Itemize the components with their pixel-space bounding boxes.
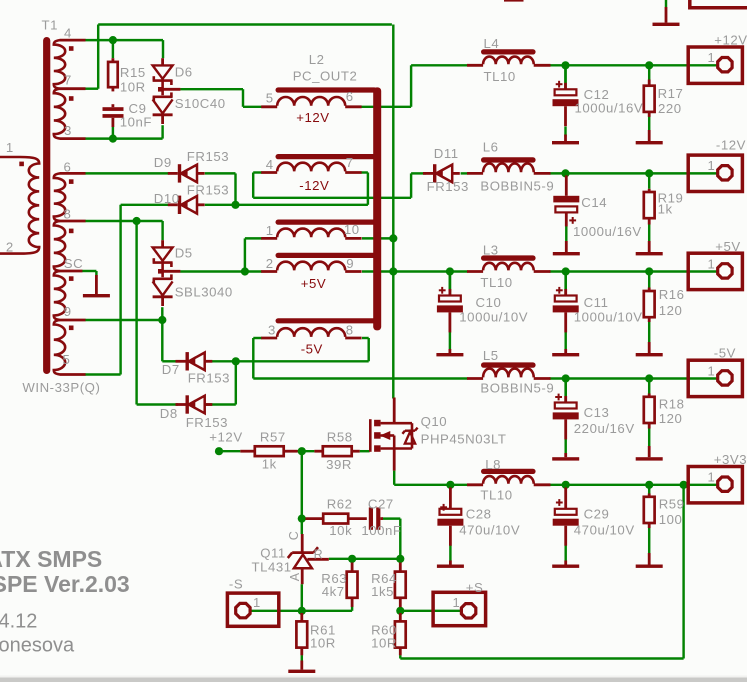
node D9/D10 junction <box>231 201 239 209</box>
wire net L2 pin6 to +12V rail <box>362 106 412 108</box>
svg-text:8: 8 <box>64 207 72 222</box>
inductor L2 core bars <box>276 87 378 92</box>
ground R19 <box>648 241 651 252</box>
capacitor C28 <box>449 487 452 508</box>
transistor Q11 TL431 <box>301 534 304 553</box>
wire net shunt leads rail5 <box>564 485 566 505</box>
transistor Q10 PHP45N03LT <box>369 419 372 452</box>
node loop junction <box>680 481 688 489</box>
svg-text:L3: L3 <box>483 243 499 258</box>
resistor R58 <box>314 450 323 453</box>
svg-text:2: 2 <box>6 240 14 255</box>
node pin3/C9 junction <box>109 135 117 143</box>
inductor L4 TL10 <box>481 49 536 54</box>
wire net +5V rail <box>393 270 467 272</box>
node R18 junction <box>645 374 653 382</box>
svg-text:D9: D9 <box>154 155 172 170</box>
resistor R57 <box>240 450 255 453</box>
wire net R60 bottom loop to +3V3 rail <box>399 655 401 658</box>
svg-text:120: 120 <box>659 303 683 318</box>
wire net +3V3 rail <box>393 471 395 485</box>
connector X-5V <box>688 360 742 396</box>
node D5 anode junction <box>158 316 166 324</box>
inductor L5 BOBBIN5-9 <box>481 362 536 367</box>
wire net C27 right to R64 column <box>382 517 400 519</box>
svg-text:L6: L6 <box>483 140 499 155</box>
node C14 junction <box>561 169 569 177</box>
resistor R60 <box>399 613 402 621</box>
svg-text:5: 5 <box>266 91 274 106</box>
svg-text:D6: D6 <box>175 64 193 79</box>
node bus/pin10 junction <box>362 237 393 239</box>
wire net TL431 cathode lead <box>301 519 303 534</box>
bottom scrollbar strip <box>0 676 747 678</box>
svg-text:C29: C29 <box>584 507 610 522</box>
connector +S <box>433 592 486 625</box>
node anode/R61 junction <box>298 607 306 615</box>
svg-text:PC_OUT2: PC_OUT2 <box>293 69 358 84</box>
svg-text:7: 7 <box>346 155 354 170</box>
svg-text:BOBBIN5-9: BOBBIN5-9 <box>480 179 554 194</box>
svg-text:1000u/10V: 1000u/10V <box>574 310 643 325</box>
wire net rectified -5V to L2 pin8 <box>236 360 369 362</box>
ground R61 <box>300 661 303 670</box>
wire stub top edge <box>504 0 524 2</box>
svg-text:TL431: TL431 <box>252 560 292 575</box>
resistor R16 <box>648 288 651 292</box>
wire net +12V rail dots <box>561 61 569 69</box>
node R16 junction <box>645 267 653 275</box>
wire net rectified -12V to L2 pin7 <box>236 204 368 206</box>
svg-text:-5V: -5V <box>714 346 736 361</box>
svg-text:R17: R17 <box>658 86 684 101</box>
ground C10 <box>448 349 451 353</box>
transformer T1 polarity dots <box>69 46 74 51</box>
svg-text:39R: 39R <box>326 457 352 472</box>
svg-text:1: 1 <box>266 223 274 238</box>
wire net L2 pin3 loop to -5V rail <box>253 337 262 339</box>
capacitor C11 <box>564 272 567 296</box>
svg-text:1: 1 <box>708 50 716 65</box>
svg-text:1k: 1k <box>658 202 673 217</box>
wire net SC to ground <box>82 270 97 272</box>
svg-text:-S: -S <box>229 576 243 591</box>
svg-text:1k5: 1k5 <box>371 584 394 599</box>
capacitor C27 <box>369 507 373 529</box>
svg-text:C14: C14 <box>581 195 607 210</box>
diode D10 FR153 <box>178 196 181 214</box>
svg-text:R62: R62 <box>327 497 353 512</box>
svg-text:L5: L5 <box>483 348 499 363</box>
wire net -12V rail <box>550 172 718 174</box>
ground C13 <box>564 453 567 457</box>
svg-text:9: 9 <box>64 304 72 319</box>
connector X+3V3 <box>688 467 742 503</box>
wire net L2 pin9 to +5V rail <box>362 270 393 272</box>
wire vertical bus x393 to Q10 drain <box>392 25 394 399</box>
svg-text:-12V: -12V <box>299 178 329 193</box>
resistor R17 <box>648 80 651 86</box>
svg-text:R15: R15 <box>120 65 146 80</box>
transformer T1 primary polarity dot <box>19 162 24 167</box>
svg-text:+12V: +12V <box>714 33 747 48</box>
svg-text:R: R <box>314 548 324 562</box>
svg-text:1k: 1k <box>262 457 277 472</box>
wire net -S row <box>251 610 353 612</box>
wire net node down to R62 row <box>301 451 303 518</box>
node pin8 junction <box>133 217 141 225</box>
svg-text:S10C40: S10C40 <box>175 96 226 111</box>
svg-text:L2: L2 <box>309 52 325 67</box>
diode D9 FR153 <box>178 164 181 182</box>
svg-text:3: 3 <box>268 322 276 337</box>
connector X+5V <box>688 253 742 289</box>
node C29 junction <box>562 481 570 489</box>
svg-text:1: 1 <box>708 470 716 485</box>
inductor L2 windings <box>277 97 345 106</box>
wire net shunt leads rail2 <box>648 173 650 188</box>
wire net pin7 to top bus <box>85 87 98 89</box>
transformer T1 core <box>43 37 50 374</box>
svg-text:L8: L8 <box>485 457 501 472</box>
resistor R59 <box>648 494 651 497</box>
node C28 junction <box>446 481 454 489</box>
svg-text:1000u/10V: 1000u/10V <box>459 310 528 325</box>
svg-text:C10: C10 <box>476 295 502 310</box>
capacitor C13 <box>564 379 567 403</box>
svg-text:ATX SMPS: ATX SMPS <box>0 546 102 572</box>
node C10 junction <box>446 267 454 275</box>
capacitor C14 <box>565 175 568 195</box>
svg-text:1000u/16V: 1000u/16V <box>575 100 644 115</box>
svg-text:7: 7 <box>64 72 72 87</box>
node L2 pin1/pin2 junction <box>241 267 249 275</box>
svg-text:FR153: FR153 <box>188 371 230 386</box>
svg-text:+5V: +5V <box>715 239 740 254</box>
inductor L8 TL10 <box>481 469 536 474</box>
diode D5 dual schottky SBL3040 <box>161 240 164 247</box>
svg-text:+5V: +5V <box>301 276 326 291</box>
wire net L2 pin4 loop to D11 <box>253 171 262 173</box>
svg-text:FR153: FR153 <box>186 415 228 430</box>
svg-text:R57: R57 <box>260 430 286 445</box>
node R62/TL431 junction <box>298 515 306 523</box>
svg-text:4.12: 4.12 <box>0 610 37 632</box>
node C11 junction <box>562 267 570 275</box>
svg-text:A: A <box>288 572 302 581</box>
svg-text:220u/16V: 220u/16V <box>574 421 635 436</box>
node R19 junction <box>645 169 653 177</box>
svg-text:-12V: -12V <box>716 137 746 152</box>
wire net TL431 anode down <box>301 584 303 611</box>
svg-text:TL10: TL10 <box>480 488 512 503</box>
connector X+12V <box>688 47 742 83</box>
svg-text:4: 4 <box>64 25 72 40</box>
svg-text:10R: 10R <box>310 635 336 650</box>
svg-text:6: 6 <box>64 159 72 174</box>
svg-text:3: 3 <box>64 123 72 138</box>
node R64/R60 junction <box>396 607 404 615</box>
ground C14 <box>565 241 568 252</box>
wire net R57-R58 node <box>298 450 315 452</box>
svg-text:9: 9 <box>346 256 354 271</box>
svg-text:100nF: 100nF <box>361 523 401 538</box>
transformer T1 primary winding <box>0 157 39 254</box>
svg-text:2: 2 <box>266 256 274 271</box>
resistor R18 <box>648 394 651 397</box>
svg-text:10R: 10R <box>371 635 397 650</box>
node R57/R58 junction <box>298 447 306 455</box>
diode D8 FR153 <box>186 395 189 413</box>
wire net D10 row <box>121 204 169 206</box>
ground R17 <box>648 130 651 141</box>
wire net D6 tap to L2 pin5 <box>180 88 243 90</box>
capacitor C9 <box>103 107 124 111</box>
wire net R58 to Q10 gate <box>360 450 370 452</box>
svg-text:SBL3040: SBL3040 <box>175 285 233 300</box>
diode D7 FR153 <box>186 352 189 370</box>
wire net +12V feed R57 <box>215 447 223 455</box>
svg-text:D8: D8 <box>160 406 178 421</box>
wire net pin3 row to D6 bottom and C9 <box>85 137 163 139</box>
wire net pin8 row to D5 top <box>85 220 163 222</box>
wire net D5 tap to +5V node <box>180 270 245 272</box>
resistor R19 <box>648 189 651 192</box>
svg-text:8: 8 <box>346 322 354 337</box>
svg-text:D5: D5 <box>175 246 193 261</box>
wire net +S row <box>399 559 401 563</box>
connector X-12V <box>688 155 742 191</box>
resistor R64 <box>399 563 402 572</box>
svg-text:220: 220 <box>658 101 682 116</box>
svg-text:R59: R59 <box>659 497 685 512</box>
svg-text:TL10: TL10 <box>480 275 512 290</box>
svg-text:SPE Ver.2.03: SPE Ver.2.03 <box>0 571 130 597</box>
svg-text:10k: 10k <box>329 523 352 538</box>
node R63 top junction <box>348 555 356 563</box>
wire net tap line x120 to T1 pin5 <box>119 205 121 375</box>
svg-text:100: 100 <box>659 512 683 527</box>
svg-text:Q10: Q10 <box>421 414 448 429</box>
ground C29 <box>564 561 567 565</box>
svg-text:1000u/16V: 1000u/16V <box>573 224 642 239</box>
resistor R63 <box>351 563 354 572</box>
wire net R63 leads <box>351 559 353 563</box>
svg-text:C: C <box>287 531 301 541</box>
svg-text:Q11: Q11 <box>260 545 286 560</box>
svg-text:470u/10V: 470u/10V <box>459 523 520 538</box>
ground R18 <box>648 446 651 457</box>
capacitor C10 <box>449 272 452 296</box>
svg-text:C28: C28 <box>466 507 492 522</box>
ground SC <box>95 275 98 294</box>
wire net shunt leads rail4 <box>564 379 566 400</box>
svg-text:4k7: 4k7 <box>322 584 345 599</box>
svg-text:5: 5 <box>63 352 71 367</box>
svg-text:1: 1 <box>253 595 261 610</box>
wire net R64 top lead <box>399 559 401 563</box>
svg-text:FR153: FR153 <box>187 149 229 164</box>
wire net shunt leads rail1 <box>564 65 566 83</box>
node bus/+5V rail junction <box>389 267 397 275</box>
wire net top-right ground stub <box>665 0 667 7</box>
svg-text:T1: T1 <box>42 18 59 33</box>
svg-text:SC: SC <box>64 256 83 271</box>
svg-text:10nF: 10nF <box>120 115 152 130</box>
inductor L3 TL10 <box>481 255 536 260</box>
ground C12 <box>564 135 567 142</box>
wire net SEC1 pin4 to R15/D6 top <box>85 39 163 41</box>
ground C28 <box>449 561 452 565</box>
svg-text:6: 6 <box>346 89 354 104</box>
capacitor C12 <box>564 65 567 89</box>
svg-text:C11: C11 <box>584 295 609 310</box>
ground top-right <box>665 7 668 23</box>
ground R16 <box>648 342 651 353</box>
wire net D11 out to L6 <box>461 172 468 174</box>
node R59 junction <box>645 481 653 489</box>
diode D6 dual schottky S10C40 <box>161 58 164 65</box>
svg-text:onesova: onesova <box>0 635 75 657</box>
svg-text:D11: D11 <box>434 146 459 161</box>
svg-text:FR153: FR153 <box>187 183 229 198</box>
node pin4 junction <box>109 36 117 44</box>
wire net D5 node to D7 <box>161 320 163 361</box>
wire net pin9 row to D5 bottom node <box>85 319 162 321</box>
svg-text:10R: 10R <box>120 80 146 95</box>
svg-text:+12V: +12V <box>209 430 242 445</box>
node D7/D8 junction <box>232 357 240 365</box>
svg-text:BOBBIN5-9: BOBBIN5-9 <box>480 381 554 396</box>
node C27/R64/ref junction <box>396 555 404 563</box>
ground R59 <box>648 553 651 565</box>
svg-text:FR153: FR153 <box>427 179 469 194</box>
svg-text:+3V3: +3V3 <box>714 452 747 467</box>
svg-text:WIN-33P(Q): WIN-33P(Q) <box>22 380 100 395</box>
wire net D7 node down to D8 out <box>235 361 237 404</box>
resistor R61 <box>300 613 303 621</box>
wire net -5V rail <box>550 377 718 379</box>
transformer T1 secondary winding 4-7 <box>54 40 65 89</box>
svg-text:R18: R18 <box>659 396 685 411</box>
connector top-right partial <box>690 0 747 8</box>
wire net pin6 row to D9 <box>85 172 169 174</box>
svg-text:D10: D10 <box>154 191 180 206</box>
wire net D9 out down to D10 node <box>205 172 236 174</box>
wire net +5V node to L2 pin2 <box>245 270 262 272</box>
wire net shunt leads rail3 <box>449 272 451 293</box>
wire net D7 out node <box>205 360 236 362</box>
svg-text:+12V: +12V <box>296 110 329 125</box>
svg-text:L4: L4 <box>484 36 500 51</box>
transformer T1 pin stubs <box>60 39 86 42</box>
svg-text:PHP45N03LT: PHP45N03LT <box>421 432 507 447</box>
svg-text:C13: C13 <box>584 405 610 420</box>
svg-text:1: 1 <box>453 595 461 610</box>
svg-text:R58: R58 <box>327 430 353 445</box>
svg-text:D7: D7 <box>162 362 180 377</box>
wire net R61 bottom to ground <box>301 655 303 660</box>
svg-text:1: 1 <box>708 158 716 173</box>
svg-text:470u/10V: 470u/10V <box>574 523 635 538</box>
svg-text:-5V: -5V <box>301 341 323 356</box>
svg-text:C27: C27 <box>368 497 394 512</box>
svg-text:120: 120 <box>659 411 683 426</box>
resistor R62 <box>306 517 324 520</box>
node C13 junction <box>562 374 570 382</box>
svg-text:1: 1 <box>6 140 14 155</box>
svg-text:1: 1 <box>708 363 716 378</box>
wire net +5V node to L2 pin1 <box>244 238 246 271</box>
svg-text:4: 4 <box>266 157 274 172</box>
svg-text:1: 1 <box>708 256 716 271</box>
capacitor C29 <box>564 487 567 508</box>
connector -S <box>227 593 278 626</box>
svg-text:R16: R16 <box>659 287 685 302</box>
wire net R62 left stub <box>302 517 306 519</box>
svg-text:10: 10 <box>344 222 360 237</box>
inductor L6 BOBBIN5-9 <box>481 157 536 162</box>
svg-text:TL10: TL10 <box>484 69 516 84</box>
wire net TL431 ref row <box>329 558 401 560</box>
ground C11 <box>564 349 567 353</box>
resistor R15 <box>112 58 115 62</box>
diode D11 FR153 <box>433 164 436 182</box>
wire net x136 line to D8 <box>135 221 137 405</box>
svg-text:+S: +S <box>466 580 484 595</box>
